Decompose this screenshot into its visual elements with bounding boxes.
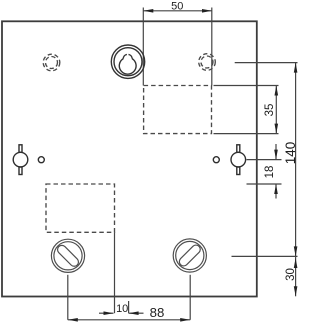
svg-text:88: 88 [150,305,165,320]
svg-text:10: 10 [116,303,128,315]
svg-text:50: 50 [171,1,183,13]
svg-text:140: 140 [283,142,298,165]
svg-text:30: 30 [285,268,297,281]
svg-text:18: 18 [264,166,276,179]
svg-text:35: 35 [264,104,276,117]
